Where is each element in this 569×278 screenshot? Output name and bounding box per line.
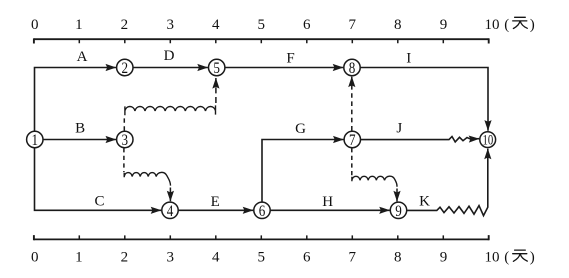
wire: activity K with free-float zigzag (node 9 right, zigzag, up to node 10): [407, 149, 488, 216]
wire: activity C (node 1 down then right to node 4): [35, 148, 162, 211]
node 1: [27, 131, 43, 147]
node 4: [162, 202, 178, 218]
svg-text:8: 8: [394, 250, 402, 266]
svg-text:F: F: [286, 51, 294, 67]
dummy arrow node 7 to node 8 (dashed): [351, 77, 353, 131]
wire: activity F (node 5 to node 8): [225, 67, 343, 69]
dummy node 7 to node 9: arrow into node 9 top: [396, 189, 398, 202]
svg-text:1: 1: [75, 17, 83, 33]
svg-text:C: C: [94, 194, 104, 210]
node 2: [117, 59, 133, 75]
svg-text:(: (: [504, 17, 509, 33]
dummy node 3 to node 4: arrow into node 4 top: [169, 188, 171, 202]
svg-text:0: 0: [31, 17, 39, 33]
svg-text:1: 1: [75, 250, 83, 266]
node 3: [117, 131, 133, 147]
bottom ruler ticks: [79, 235, 443, 239]
bottom scale: hand-drawn tian character: [513, 250, 528, 261]
top ruler ticks: [79, 39, 443, 43]
svg-text:5: 5: [213, 60, 220, 77]
svg-text:A: A: [77, 49, 88, 65]
svg-text:8: 8: [349, 60, 356, 77]
wire: activity G (node 6 up then right to node 7): [262, 140, 344, 202]
wire: activity H (node 6 to node 9): [271, 209, 390, 211]
svg-text:E: E: [211, 194, 220, 210]
dummy node 3 to node 5: arrow into node 5 bottom: [215, 78, 217, 103]
svg-text:2: 2: [122, 60, 129, 77]
svg-text:3: 3: [122, 132, 129, 149]
svg-text:(: (: [504, 250, 509, 266]
svg-text:2: 2: [121, 250, 129, 266]
svg-text:9: 9: [440, 17, 448, 33]
dummy node 7 to node 9: free-float wavy line with hook: [352, 176, 397, 187]
top scale: hand-drawn tian character: [513, 17, 528, 28]
node 9: [390, 202, 406, 218]
svg-text:7: 7: [349, 17, 357, 33]
svg-text:2: 2: [121, 17, 129, 33]
node 8: [344, 59, 360, 75]
svg-text:9: 9: [395, 203, 402, 220]
wire: activity B (node 1 right to node 3): [43, 139, 116, 141]
svg-text:G: G: [295, 121, 306, 137]
svg-text:9: 9: [440, 250, 448, 266]
svg-text:7: 7: [349, 132, 356, 149]
svg-text:I: I: [406, 51, 411, 67]
node 7: [344, 131, 360, 147]
svg-text:8: 8: [394, 17, 402, 33]
svg-text:6: 6: [303, 250, 311, 266]
node 6: [254, 202, 270, 218]
node 5: [209, 59, 225, 75]
node 10: [480, 132, 496, 148]
svg-text:K: K: [419, 193, 430, 209]
wire: activity J with free-float squiggle (node 7 to node 10): [361, 137, 479, 142]
svg-text:7: 7: [349, 250, 357, 266]
svg-text:10: 10: [483, 132, 494, 148]
wire: activity I (node 8 right then down to node 10): [361, 68, 488, 131]
svg-text:4: 4: [212, 250, 220, 266]
wire: activity A (node 1 up then right to node 2): [35, 68, 117, 132]
wire: activity D (node 2 to node 5): [133, 67, 208, 69]
dummy node 3 to node 4: free-float wavy line with hook: [124, 172, 170, 185]
svg-text:D: D: [164, 48, 175, 64]
svg-text:3: 3: [167, 17, 175, 33]
svg-text:4: 4: [212, 17, 220, 33]
svg-text:3: 3: [167, 250, 175, 266]
svg-text:1: 1: [32, 132, 39, 149]
svg-text:J: J: [396, 121, 402, 137]
dummy node 3 to node 4: dashed riser: [123, 148, 125, 172]
svg-text:): ): [530, 250, 535, 266]
dummy node 3 to node 5: dashed riser: [123, 116, 125, 131]
svg-text:): ): [530, 17, 535, 33]
svg-text:6: 6: [259, 203, 266, 220]
svg-text:0: 0: [31, 250, 39, 266]
svg-text:B: B: [75, 121, 85, 137]
top ruler line: [34, 38, 489, 40]
svg-text:10: 10: [485, 17, 500, 33]
svg-text:5: 5: [258, 250, 266, 266]
svg-text:5: 5: [258, 17, 266, 33]
bottom ruler line: [34, 238, 489, 240]
wire: activity E (node 4 to node 6): [179, 209, 254, 211]
svg-text:6: 6: [303, 17, 311, 33]
dummy node 7 to node 9: dashed riser: [351, 148, 353, 177]
svg-text:4: 4: [167, 203, 174, 220]
svg-text:H: H: [322, 194, 333, 210]
dummy node 3 to node 5: free-float wavy line: [125, 105, 216, 115]
svg-text:10: 10: [485, 250, 500, 266]
